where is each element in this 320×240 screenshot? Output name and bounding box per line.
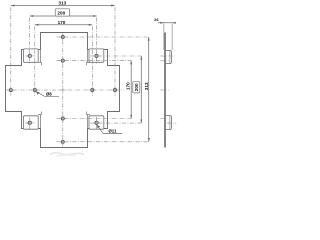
hole 3 left mid xyxy=(31,86,39,93)
hole 2 upper center xyxy=(59,57,67,64)
inner step lines upper-left xyxy=(38,50,42,66)
dim 26 xyxy=(154,17,176,50)
svg-text:200: 200 xyxy=(134,83,139,91)
pad hole UR xyxy=(93,52,101,59)
pad hole LR xyxy=(93,119,101,126)
hole 7 right arm xyxy=(111,86,119,93)
centerline column x=96.7 lower xyxy=(96,117,98,129)
side view tick y=123.1 xyxy=(167,122,176,124)
centerline column x=29.7 lower xyxy=(29,117,31,129)
centerline row y=142 xyxy=(57,141,149,143)
svg-text:313: 313 xyxy=(58,1,66,6)
hole 5 right mid xyxy=(89,86,97,93)
pad LL xyxy=(23,116,38,129)
dim V 200 (boxed) xyxy=(133,56,143,123)
pad hole UL xyxy=(26,52,34,59)
inner step lines upper-right xyxy=(87,50,91,66)
pad hole LL xyxy=(26,119,34,126)
svg-text:Ø8: Ø8 xyxy=(46,91,52,96)
centerline row y=123.1 right xyxy=(90,122,141,124)
faint watermark xyxy=(50,153,84,155)
centerline row y=37.5 xyxy=(57,36,149,38)
hole 8 lower center xyxy=(59,115,67,122)
centerline row y=118.5 xyxy=(57,118,132,120)
dim H 200 (boxed) xyxy=(30,9,97,17)
side view tick y=56 xyxy=(160,55,175,57)
dim V 313 xyxy=(144,37,150,142)
centerline row y=56 right xyxy=(90,55,141,57)
centerline column x=10.9 xyxy=(10,7,12,96)
dim H 313 xyxy=(11,1,115,7)
dim V 170 xyxy=(126,61,133,119)
svg-text:200: 200 xyxy=(57,10,65,15)
centerline row y=90.4 xyxy=(5,89,124,91)
centerline row y=123.1 left pad xyxy=(25,122,34,124)
centerline column x=29.7 upper xyxy=(29,18,31,64)
svg-text:313: 313 xyxy=(144,82,149,90)
centerline column x=114.7 xyxy=(114,7,116,96)
side view tick y=90.4 xyxy=(160,89,169,91)
centerline row y=56 left pad xyxy=(25,55,34,57)
svg-text:170: 170 xyxy=(126,82,131,90)
inner step lines lower-left xyxy=(38,112,42,129)
side view upper boss xyxy=(166,51,172,64)
pad UR xyxy=(89,49,104,62)
centerline column x=34.8 xyxy=(34,26,36,96)
center mark 4 xyxy=(59,86,67,94)
dim H 170 xyxy=(35,20,93,26)
svg-text:26: 26 xyxy=(154,17,159,22)
leader dia8 xyxy=(36,91,59,96)
side view tick y=118.5 xyxy=(160,118,167,120)
hole 6 left arm xyxy=(7,87,15,94)
side view plate bar xyxy=(165,33,166,148)
pad LR xyxy=(89,116,104,129)
part outline (plus shape with corner steps) xyxy=(6,33,120,148)
svg-text:Ø11: Ø11 xyxy=(108,129,117,134)
inner step lines lower-right xyxy=(87,112,91,129)
centerline column x=92.3 xyxy=(91,26,93,96)
hole 9 bottom arm xyxy=(59,138,67,145)
side view tick y=61.3 xyxy=(160,60,168,62)
pad UL xyxy=(23,49,38,62)
centerline row y=61.3 xyxy=(57,60,132,62)
hole 1 top arm xyxy=(59,33,67,40)
leader dia11 xyxy=(97,125,122,134)
centerline column x=63.1 xyxy=(62,32,64,146)
side view lower boss xyxy=(166,116,172,130)
svg-text:170: 170 xyxy=(58,20,66,25)
centerline column x=96.7 upper xyxy=(96,18,98,64)
